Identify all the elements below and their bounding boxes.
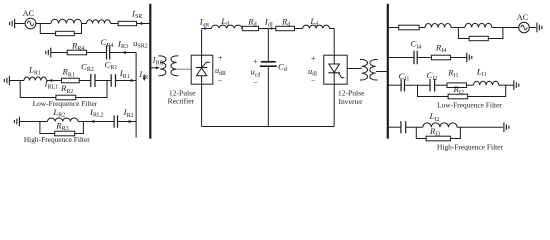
svg-text:+: + bbox=[253, 57, 258, 66]
svg-text:Low-Frequence Filter: Low-Frequence Filter bbox=[33, 99, 98, 108]
svg-text:−: − bbox=[311, 77, 316, 86]
svg-text:−: − bbox=[218, 77, 223, 86]
svg-text:Inverter: Inverter bbox=[338, 97, 363, 106]
svg-text:Rectifier: Rectifier bbox=[168, 96, 195, 105]
svg-text:High-Frequence Filter: High-Frequence Filter bbox=[437, 143, 503, 152]
svg-text:−: − bbox=[253, 78, 258, 87]
svg-text:High-Frequence Filter: High-Frequence Filter bbox=[24, 135, 90, 144]
svg-text:Low-Frequence Filter: Low-Frequence Filter bbox=[437, 101, 502, 110]
svg-text:AC: AC bbox=[23, 9, 35, 18]
svg-text:+: + bbox=[311, 54, 316, 63]
svg-text:+: + bbox=[218, 54, 223, 63]
svg-text:AC: AC bbox=[517, 13, 529, 22]
